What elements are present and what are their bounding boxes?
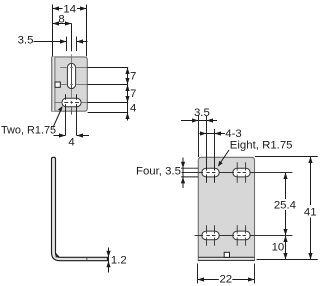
crosshair ticks arc centers bottom slots <box>207 225 246 246</box>
svg-text:7: 7 <box>130 88 136 100</box>
svg-text:14: 14 <box>63 3 76 15</box>
dimension 10 <box>272 236 288 260</box>
dimension Four 3.5 <box>136 158 198 189</box>
centerline bottom slots <box>195 235 293 237</box>
dimension 25.4 <box>274 173 296 236</box>
vertical slot <box>67 63 75 88</box>
slot top-left <box>202 168 219 177</box>
svg-text:25.4: 25.4 <box>274 199 296 211</box>
right plate back view <box>198 157 254 260</box>
bottom slot left plate <box>62 98 81 107</box>
svg-text:8: 8 <box>58 13 64 25</box>
svg-text:22: 22 <box>219 273 232 285</box>
dimension chain 7 7 4 right side <box>125 68 136 121</box>
svg-text:Two, R1.75: Two, R1.75 <box>1 124 56 136</box>
dimension 3.5 left (slot width) <box>18 34 88 51</box>
dimension 41 <box>255 157 318 260</box>
dimension 8 <box>53 13 72 25</box>
dimension 22 <box>198 264 255 286</box>
slot bottom-left <box>202 231 219 240</box>
ext line 7 top <box>87 67 128 69</box>
centerline slot bottom arc (in plate) <box>61 84 88 86</box>
dimension 14 <box>53 3 87 56</box>
ext line plate bottom right <box>88 112 129 114</box>
notch tab mark side view <box>86 257 88 260</box>
svg-text:4: 4 <box>68 137 74 149</box>
label Two R1.75 with leader <box>1 106 63 136</box>
vertical centerline through slots <box>71 24 73 52</box>
dimension 3.5 right drawing <box>181 107 217 183</box>
notch square left plate <box>55 82 60 87</box>
L bracket side view <box>52 157 108 260</box>
dimension 4 bottom of left plate <box>54 94 90 148</box>
svg-text:7: 7 <box>130 71 136 83</box>
svg-text:41: 41 <box>304 207 317 219</box>
svg-text:3.5: 3.5 <box>194 107 210 119</box>
svg-text:4: 4 <box>130 103 136 115</box>
svg-text:10: 10 <box>272 241 285 253</box>
svg-text:Four, 3.5: Four, 3.5 <box>136 165 181 177</box>
svg-text:1.2: 1.2 <box>111 254 127 266</box>
left bent edge band <box>52 57 55 111</box>
ext line 4 (oval center) <box>87 102 128 104</box>
centerline bottom slot (in plate) <box>55 102 87 104</box>
centerline top slots <box>182 172 293 174</box>
bend inner corner wedge <box>56 253 61 258</box>
centerline slot top arc (in plate) <box>60 67 87 69</box>
label Eight R1.75 with leader <box>218 140 293 167</box>
bottom bent edge band <box>199 257 254 260</box>
notch square right plate <box>224 252 229 257</box>
crosshair ticks arc centers top-right slot <box>237 162 245 183</box>
dimension 4-3 <box>200 128 242 183</box>
svg-text:3.5: 3.5 <box>18 34 34 46</box>
dimension 1.2 <box>106 248 126 273</box>
left plate front view <box>52 57 88 111</box>
svg-text:4-3: 4-3 <box>225 128 241 140</box>
slot bottom-right <box>233 231 250 240</box>
slot top-right <box>233 168 250 177</box>
ext line 7 bottom <box>87 84 128 86</box>
svg-text:Eight, R1.75: Eight, R1.75 <box>230 140 293 152</box>
